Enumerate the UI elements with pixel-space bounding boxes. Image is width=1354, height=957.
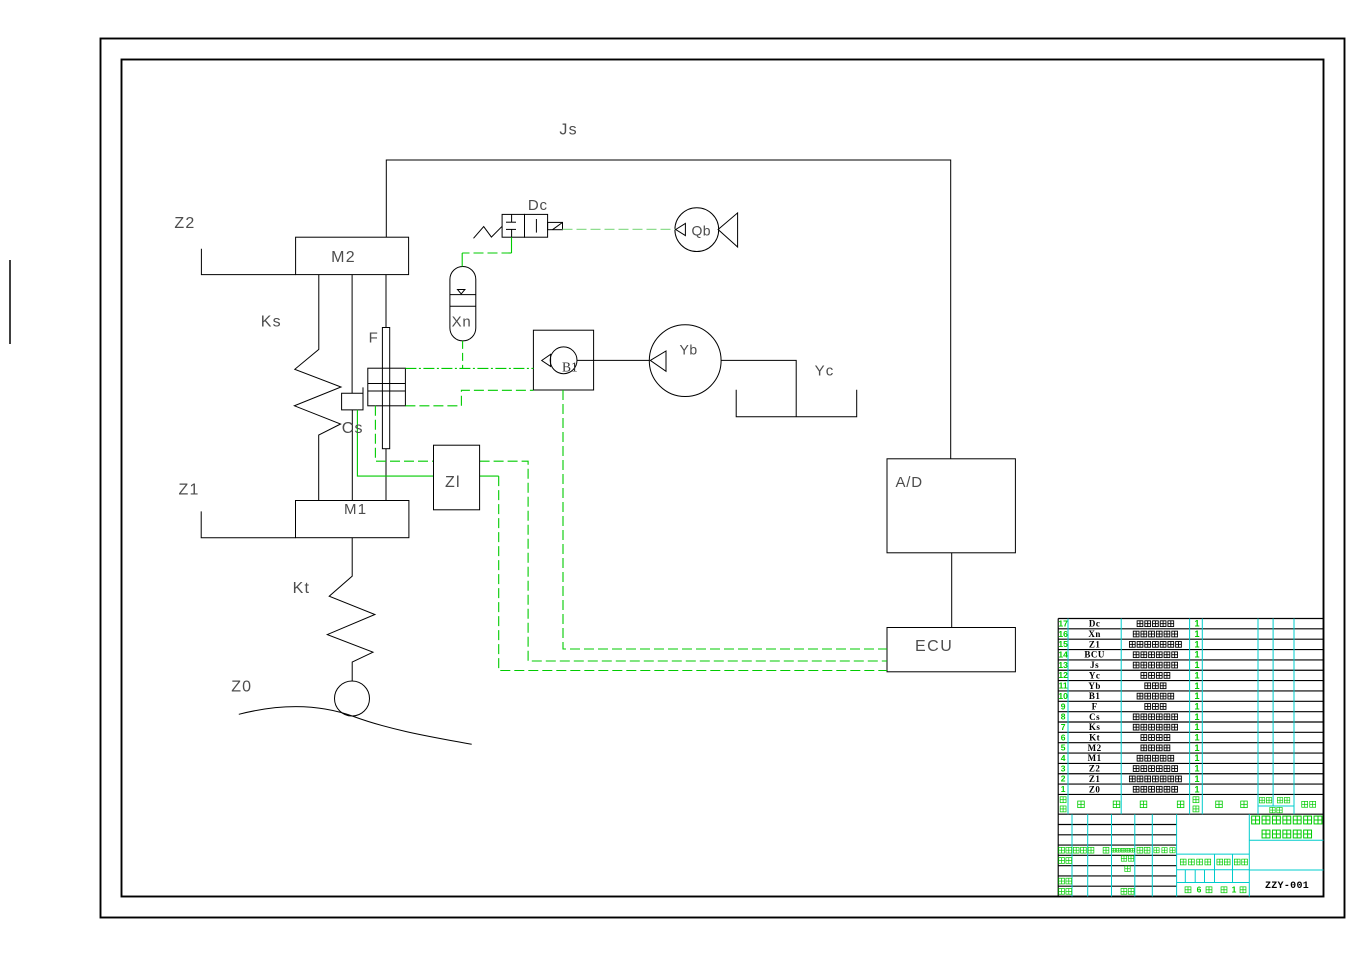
svg-text:BCU: BCU	[1084, 650, 1105, 660]
svg-text:1: 1	[1194, 743, 1199, 753]
svg-text:Ks: Ks	[261, 314, 282, 331]
svg-text:A/D: A/D	[896, 474, 923, 491]
svg-text:1: 1	[1194, 712, 1199, 722]
svg-text:16: 16	[1058, 629, 1068, 639]
svg-text:Yc: Yc	[815, 363, 835, 380]
svg-text:Js: Js	[1090, 660, 1099, 670]
svg-text:Xn: Xn	[452, 314, 472, 331]
svg-text:Qb: Qb	[692, 223, 711, 239]
svg-text:B1: B1	[1089, 691, 1101, 701]
svg-text:Z1: Z1	[1089, 774, 1101, 784]
svg-text:Cs: Cs	[1089, 712, 1100, 722]
svg-text:6: 6	[1061, 732, 1066, 742]
svg-text:2: 2	[1061, 774, 1066, 784]
svg-text:B1: B1	[562, 360, 578, 375]
svg-text:1: 1	[1194, 774, 1199, 784]
svg-text:Xn: Xn	[1088, 629, 1101, 639]
svg-text:M1: M1	[1088, 753, 1102, 763]
svg-text:F: F	[1092, 701, 1098, 711]
svg-text:M2: M2	[1088, 743, 1102, 753]
svg-text:10: 10	[1058, 691, 1068, 701]
svg-text:1: 1	[1194, 701, 1199, 711]
svg-text:1: 1	[1061, 784, 1066, 794]
svg-text:11: 11	[1059, 681, 1068, 691]
svg-text:5: 5	[1061, 743, 1066, 753]
svg-text:Yb: Yb	[1088, 681, 1101, 691]
svg-text:Js: Js	[559, 122, 577, 139]
svg-text:1: 1	[1194, 670, 1199, 680]
svg-text:ZZY-001: ZZY-001	[1265, 881, 1309, 892]
svg-text:1: 1	[1194, 691, 1199, 701]
svg-text:1: 1	[1232, 885, 1237, 895]
svg-text:1: 1	[1194, 722, 1199, 732]
svg-text:F: F	[369, 330, 379, 347]
svg-text:12: 12	[1058, 670, 1068, 680]
svg-text:14: 14	[1058, 650, 1068, 660]
svg-text:Kt: Kt	[293, 580, 311, 597]
svg-text:3: 3	[1061, 763, 1066, 773]
svg-text:Z1: Z1	[179, 482, 200, 499]
svg-text:Kt: Kt	[1089, 733, 1100, 743]
svg-text:6: 6	[1197, 885, 1202, 895]
svg-text:Z0: Z0	[1089, 784, 1101, 794]
svg-text:1: 1	[1194, 650, 1199, 660]
svg-text:Z0: Z0	[231, 679, 252, 696]
svg-text:1: 1	[1194, 764, 1199, 774]
svg-text:Z2: Z2	[1089, 764, 1101, 774]
svg-text:17: 17	[1058, 618, 1068, 628]
svg-text:8: 8	[1061, 712, 1066, 722]
svg-text:1: 1	[1194, 733, 1199, 743]
svg-text:Dc: Dc	[1089, 619, 1101, 629]
svg-text:ECU: ECU	[915, 638, 953, 655]
svg-text:1: 1	[1194, 639, 1199, 649]
svg-text:13: 13	[1058, 660, 1068, 670]
svg-text:Yc: Yc	[1089, 670, 1101, 680]
svg-text:Zl: Zl	[445, 474, 461, 491]
svg-text:Z1: Z1	[1089, 639, 1101, 649]
svg-text:Ks: Ks	[1089, 722, 1101, 732]
svg-text:Z2: Z2	[174, 215, 195, 232]
svg-text:1: 1	[1194, 753, 1199, 763]
svg-text:15: 15	[1058, 639, 1068, 649]
svg-text:1: 1	[1194, 619, 1199, 629]
svg-text:1: 1	[1194, 784, 1199, 794]
svg-text:Yb: Yb	[680, 342, 698, 358]
svg-text:M2: M2	[331, 249, 356, 266]
svg-text:Dc: Dc	[528, 197, 548, 214]
svg-text:M1: M1	[344, 501, 367, 518]
svg-text:1: 1	[1194, 660, 1199, 670]
svg-text:4: 4	[1061, 753, 1066, 763]
svg-text:9: 9	[1061, 701, 1066, 711]
svg-text:Cs: Cs	[342, 420, 364, 437]
svg-text:7: 7	[1061, 722, 1066, 732]
svg-text:1: 1	[1194, 629, 1199, 639]
svg-text:1: 1	[1194, 681, 1199, 691]
